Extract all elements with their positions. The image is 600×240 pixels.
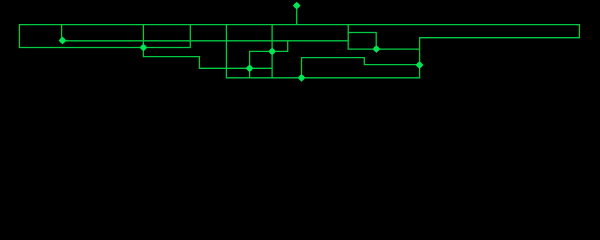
wire V3 + C + V10 + B (143, 25, 272, 69)
node dot on H3 (140, 44, 148, 52)
wire V8 + A + V9 (250, 41, 288, 78)
node dot on H2 (59, 37, 67, 45)
wire V7 stub (296, 6, 298, 25)
wire H4 + V13 (348, 33, 376, 50)
node dot on B (246, 64, 254, 72)
node dot top terminal (293, 2, 301, 10)
wire main loop: H3 left, V1, H1 top rail, V16, H6, V15, D bottom, V5 (19, 25, 579, 78)
wire V6 (271, 25, 273, 78)
node dot on D (298, 74, 306, 82)
wire V12 + H5 (348, 25, 419, 49)
node dot on A (268, 48, 276, 56)
node dot on F end (416, 61, 424, 69)
wire V11 + E + V14 + F (302, 58, 420, 78)
wire V4 (189, 25, 191, 48)
node dot on H5 (373, 45, 381, 53)
wire V2 + H2 rail (62, 25, 349, 41)
